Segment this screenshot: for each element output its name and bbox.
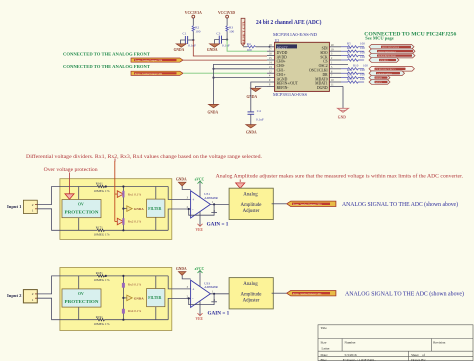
svg-text:10MEG 1%: 10MEG 1% [94, 322, 110, 326]
port SDO net tag [369, 49, 415, 54]
svg-text:VCC3V3A: VCC3V3A [185, 10, 202, 15]
svg-text:OV: OV [78, 292, 84, 296]
svg-text:R5: R5 [347, 42, 351, 46]
port From Analog Output CH1 (out) [287, 291, 336, 296]
svg-text:R8: R8 [347, 55, 351, 59]
resistor R7 [341, 50, 365, 56]
svg-text:DGND: DGND [317, 86, 328, 90]
svg-text:Input 1: Input 1 [7, 204, 22, 209]
svg-text:0.1uF: 0.1uF [256, 118, 264, 122]
block analog amplitude adjuster 2 [229, 278, 273, 309]
svg-text:GNDA: GNDA [176, 178, 187, 182]
svg-text:ANALOG SIGNAL TO THE ADC (show: ANALOG SIGNAL TO THE ADC (shown above) [345, 291, 464, 298]
svg-text:AD8648R: AD8648R [204, 196, 218, 200]
svg-text:C1: C1 [183, 32, 187, 36]
title block texts [321, 326, 446, 361]
svg-text:CH1+: CH1+ [277, 73, 286, 77]
svg-text:10MEG 1%: 10MEG 1% [94, 189, 110, 193]
svg-text:CONNECTED TO THE ANALOG FRONT: CONNECTED TO THE ANALOG FRONT [63, 64, 150, 69]
wire input1 pin1 to bottom rail [37, 209, 97, 231]
svg-text:DVDD: DVDD [277, 51, 288, 55]
svg-text:From Analog Output CH0: From Analog Output CH0 [135, 59, 163, 62]
svg-text:CONNECTED TO THE ANALOG FRONT: CONNECTED TO THE ANALOG FRONT [63, 51, 150, 56]
svg-text:GNDA: GNDA [176, 267, 187, 271]
svg-text:100: 100 [195, 29, 200, 33]
IC pin numbers right [331, 44, 334, 87]
resistor R3 [226, 26, 235, 40]
svg-text:See MCU page: See MCU page [365, 36, 393, 41]
svg-text:R4: R4 [247, 42, 251, 46]
ground GNDA side port (1) [123, 206, 144, 212]
IC pin numbers left [269, 44, 272, 87]
svg-text:Size: Size [321, 341, 327, 345]
svg-text:2: 2 [32, 292, 34, 296]
svg-text:CS: CS [323, 60, 328, 64]
svg-text:GNDA: GNDA [134, 296, 145, 300]
svg-text:Analog Amplitude adjuster make: Analog Amplitude adjuster makes sure tha… [216, 174, 464, 179]
svg-text:From Analog Output CH1: From Analog Output CH1 [293, 292, 322, 295]
wire ground bus (CH0- CH1- AGND) [212, 64, 267, 104]
svg-text:100: 100 [247, 48, 252, 52]
port From Analog Output CH0 (top) [131, 58, 183, 62]
IC pin stubs left [267, 47, 275, 87]
resistor Rx3 (diode symbol) [122, 283, 141, 288]
svg-text:100: 100 [360, 50, 365, 54]
wire opamp2 output [210, 293, 229, 295]
svg-text:Analog: Analog [243, 193, 258, 198]
wire opamp1 output [210, 203, 229, 205]
ground GNDA (under C1) [174, 44, 187, 52]
title block [318, 325, 473, 361]
svg-text:SCK: SCK [320, 55, 328, 59]
svg-text:MAT0: MAT0 [376, 77, 383, 80]
ground GNDA (opamp 1) [176, 178, 191, 190]
svg-text:10MEG 1%: 10MEG 1% [94, 233, 110, 237]
svg-text:C4: C4 [257, 109, 261, 113]
port CLKI net tag [369, 67, 414, 72]
port From Analog Output CH1 (top) [131, 71, 183, 75]
leader wire to box1 [239, 180, 241, 183]
wire block out to opamp - [168, 209, 190, 230]
ground GNDA (under C3) [207, 44, 220, 52]
svg-text:100: 100 [360, 77, 365, 81]
svg-text:Number: Number [345, 341, 357, 345]
port DR net tag [369, 71, 405, 76]
svg-text:SDO: SDO [320, 51, 328, 55]
svg-text:1: 1 [32, 298, 34, 302]
svg-text:Amplitude: Amplitude [241, 203, 262, 208]
power port VCC3V3D [218, 10, 235, 26]
svg-text:100: 100 [360, 42, 365, 46]
wire REFIN- to ground [256, 86, 267, 88]
divider chain (2) [122, 275, 124, 321]
resistor R12 [341, 72, 365, 78]
wire REFIN+/OUT to C4 [251, 82, 267, 112]
port SDI net tag [369, 45, 414, 50]
block divider area (row 2) [60, 268, 172, 331]
svg-text:FILTER: FILTER [148, 207, 161, 211]
svg-text:Letter: Letter [322, 347, 331, 351]
svg-text:DR/RP24/RD1: DR/RP24/RD1 [377, 72, 393, 75]
svg-text:OSC1/CLKI: OSC1/CLKI [309, 69, 328, 73]
svg-text:Rx4 0.1%: Rx4 0.1% [128, 309, 141, 313]
leader arrow over voltage [69, 173, 71, 194]
wire block2 out to opamp + [168, 276, 190, 289]
svg-text:GNDA: GNDA [247, 95, 258, 99]
wire block2 out to opamp - [168, 298, 190, 319]
svg-text:Title: Title [321, 326, 328, 330]
svg-text:GAIN = 1: GAIN = 1 [207, 221, 229, 227]
svg-text:Differential voltage dividers.: Differential voltage dividers. Rx1, Rx2,… [26, 155, 262, 160]
svg-text:10MEG 1%: 10MEG 1% [94, 278, 110, 282]
svg-text:Rx3 0.1%: Rx3 0.1% [128, 283, 141, 287]
svg-text:GNDA: GNDA [246, 131, 257, 135]
svg-text:SDI: SDI [322, 47, 329, 51]
svg-text:DR: DR [322, 73, 328, 77]
svg-text:R6: R6 [347, 46, 351, 50]
svg-text:From Analog Output CH0: From Analog Output CH0 [293, 203, 322, 206]
svg-text:SDO2/RP26/RG7: SDO2/RP26/RG7 [378, 50, 397, 53]
svg-text:100: 100 [360, 68, 365, 72]
svg-text:GND: GND [338, 116, 346, 120]
svg-text:Over voltage protection: Over voltage protection [44, 168, 99, 173]
svg-text:Adjuster: Adjuster [243, 298, 260, 303]
capacitor C1 [181, 32, 197, 48]
svg-text:GAIN = 1: GAIN = 1 [208, 310, 230, 316]
svg-text:ANALOG SIGNAL TO THE ADC (show: ANALOG SIGNAL TO THE ADC (shown above) [342, 201, 458, 208]
power aVCC (opamp 2) [195, 267, 205, 286]
port MCLR vertical tag [241, 18, 245, 45]
svg-text:100: 100 [360, 55, 365, 59]
wire CH1+ (green) [183, 72, 267, 74]
svg-text:C3: C3 [216, 31, 220, 35]
op-amp U31 [187, 191, 219, 218]
connector J1 Input 1 [7, 200, 37, 213]
wire DGND to GND [342, 86, 344, 108]
resistor Rx4 (diode symbol) [122, 309, 141, 314]
svg-text:From Analog Output CH1: From Analog Output CH1 [135, 72, 163, 75]
OV protection block (1) [62, 187, 101, 231]
svg-text:SCK2/RP21/RG6: SCK2/RP21/RG6 [378, 55, 397, 58]
svg-text:R181: R181 [96, 271, 103, 275]
svg-text:CH0+: CH0+ [277, 60, 286, 64]
svg-text:Sheet of: Sheet of [411, 353, 426, 357]
resistor R181 [94, 271, 169, 282]
ground GNDA side port (2) [123, 295, 144, 301]
svg-text:RESET: RESET [277, 47, 289, 51]
resistor Rx2 (diode symbol) [115, 218, 142, 225]
filter block (1) [147, 187, 165, 231]
svg-text:R11: R11 [347, 68, 353, 72]
svg-text:VEE: VEE [196, 317, 204, 321]
svg-text:100: 100 [229, 29, 234, 33]
svg-text:RESET CTL: RESET CTL [241, 21, 245, 44]
svg-text:100: 100 [363, 64, 368, 68]
svg-text:Analog: Analog [243, 282, 258, 287]
resistor Rx1 (diode symbol) [115, 161, 142, 222]
block analog amplitude adjuster 1 [229, 188, 273, 219]
port MDAT0 net tag [369, 75, 390, 80]
svg-text:REFIN-: REFIN- [277, 86, 290, 90]
wire box2 to port [272, 292, 287, 294]
resistor R161 [94, 182, 169, 193]
svg-text:OV: OV [78, 203, 84, 207]
ground GND [338, 108, 349, 119]
svg-text:CLKO/OSC2/RC15: CLKO/OSC2/RC15 [376, 68, 397, 71]
svg-text:CH1-: CH1- [277, 69, 286, 73]
wire input2 pin2 to top rail [37, 276, 97, 294]
svg-text:0.1uF: 0.1uF [188, 44, 196, 48]
svg-text:CH0-: CH0- [277, 64, 286, 68]
svg-text:Adjuster: Adjuster [243, 209, 260, 214]
resistor R191 [94, 315, 169, 326]
ground GNDA (REFIN-) [247, 88, 261, 99]
svg-text:VEE: VEE [196, 228, 204, 232]
power VCC (opamp 1) [196, 212, 204, 232]
resistor R6 [341, 46, 365, 52]
svg-text:Revision: Revision [433, 341, 445, 345]
port CS net tag [369, 58, 399, 63]
svg-text:+: + [192, 198, 194, 202]
svg-text:Date:: Date: [321, 353, 328, 357]
ground GNDA (opamp 2) [176, 267, 191, 279]
connector J2 Input 2 [7, 290, 37, 303]
svg-text:+: + [192, 288, 194, 292]
svg-text:1: 1 [32, 209, 34, 213]
svg-text:MCP3911A0-E/SS: MCP3911A0-E/SS [273, 93, 307, 97]
svg-text:CS/RE5: CS/RE5 [380, 59, 389, 62]
power VCC (opamp 2) [196, 301, 204, 321]
svg-text:Rx2 0.1%: Rx2 0.1% [128, 219, 141, 223]
resistor R8 [341, 55, 365, 61]
ground GNDA (C4) [246, 125, 257, 135]
svg-text:MCP3911A0-E/SS-ND: MCP3911A0-E/SS-ND [273, 33, 318, 37]
svg-text:R13: R13 [347, 77, 353, 81]
svg-text:GNDA: GNDA [134, 207, 145, 211]
svg-text:OSC2: OSC2 [319, 64, 328, 68]
svg-text:VCC3V3D: VCC3V3D [218, 10, 235, 15]
wire block out to opamp + [168, 187, 190, 200]
svg-text:R12: R12 [347, 72, 353, 76]
svg-text:R161: R161 [96, 182, 103, 186]
svg-text:PROTECTION: PROTECTION [65, 211, 99, 215]
svg-text:2: 2 [32, 203, 34, 207]
svg-text:PROTECTION: PROTECTION [65, 300, 99, 304]
svg-text:R191: R191 [96, 315, 103, 319]
svg-text:GNDA: GNDA [174, 48, 185, 52]
svg-text:Input 2: Input 2 [7, 293, 22, 298]
IC pin labels right [309, 47, 328, 91]
ground GNDA (bus) [208, 104, 219, 114]
svg-text:FILTER: FILTER [148, 296, 161, 300]
wire AVDD (red) [193, 40, 267, 56]
capacitor C3 [215, 31, 230, 47]
wire DVDD (green) [227, 40, 267, 52]
resistor R5 [341, 42, 365, 48]
power port VCC3V3A [185, 10, 202, 26]
svg-text:24 bit 2 channel AFE (ADC): 24 bit 2 channel AFE (ADC) [256, 19, 322, 26]
svg-text:REFIN+/OUT: REFIN+/OUT [277, 82, 299, 86]
resistor R4 [243, 42, 271, 52]
svg-text:Amplitude: Amplitude [241, 292, 262, 297]
port MDAT1 net tag [369, 80, 390, 85]
capacitor C4 [248, 109, 264, 125]
svg-text:R10: R10 [353, 64, 359, 68]
svg-text:AGND: AGND [277, 77, 288, 81]
wire feedback loop 2 [188, 294, 217, 305]
svg-text:AD8648R: AD8648R [204, 285, 218, 289]
IC U2 MCP3911 ADC [273, 33, 329, 97]
svg-text:GNDA: GNDA [208, 110, 219, 114]
divider chain (1) [122, 185, 124, 231]
svg-text:MDAT1: MDAT1 [315, 82, 327, 86]
OV protection block (2) [62, 276, 101, 320]
op-amp U33 [187, 280, 219, 307]
resistor R171 [94, 225, 169, 236]
svg-text:100: 100 [360, 72, 365, 76]
svg-text:SDI2/RP19/RG8: SDI2/RP19/RG8 [382, 46, 400, 49]
block divider area (row 1) [60, 179, 172, 240]
filter block (2) [147, 276, 165, 320]
wire box1 to port [272, 203, 287, 205]
svg-text:Rx1 0.1%: Rx1 0.1% [128, 192, 141, 196]
svg-text:AVDD: AVDD [277, 55, 288, 59]
wire input2 pin1 to bottom rail [37, 298, 97, 320]
wire CH0+ (red) [183, 59, 267, 61]
resistor R13 [341, 77, 365, 83]
resistor R2 [192, 26, 201, 40]
svg-text:MDAT0: MDAT0 [315, 77, 327, 81]
svg-text:MAT1: MAT1 [376, 81, 383, 84]
power aVCC (opamp 1) [195, 178, 205, 197]
port SCK net tag [369, 53, 415, 58]
port From Analog Output CH0 (out) [287, 201, 336, 206]
svg-text:0.1uF: 0.1uF [222, 43, 230, 47]
resistor R11 [341, 68, 365, 74]
IC pin labels left [276, 44, 299, 90]
svg-text:100: 100 [360, 46, 365, 50]
svg-text:5/3/2016: 5/3/2016 [345, 353, 357, 357]
wire input1 pin2 to top rail [37, 187, 97, 205]
IC pin stubs right [329, 47, 348, 87]
svg-text:GNDA: GNDA [207, 48, 218, 52]
svg-text:R7: R7 [347, 50, 351, 54]
wire feedback loop 1 [188, 204, 217, 215]
leader wire to Rx1 [114, 159, 116, 162]
svg-text:R171: R171 [96, 225, 103, 229]
resistor R10 [341, 64, 368, 70]
